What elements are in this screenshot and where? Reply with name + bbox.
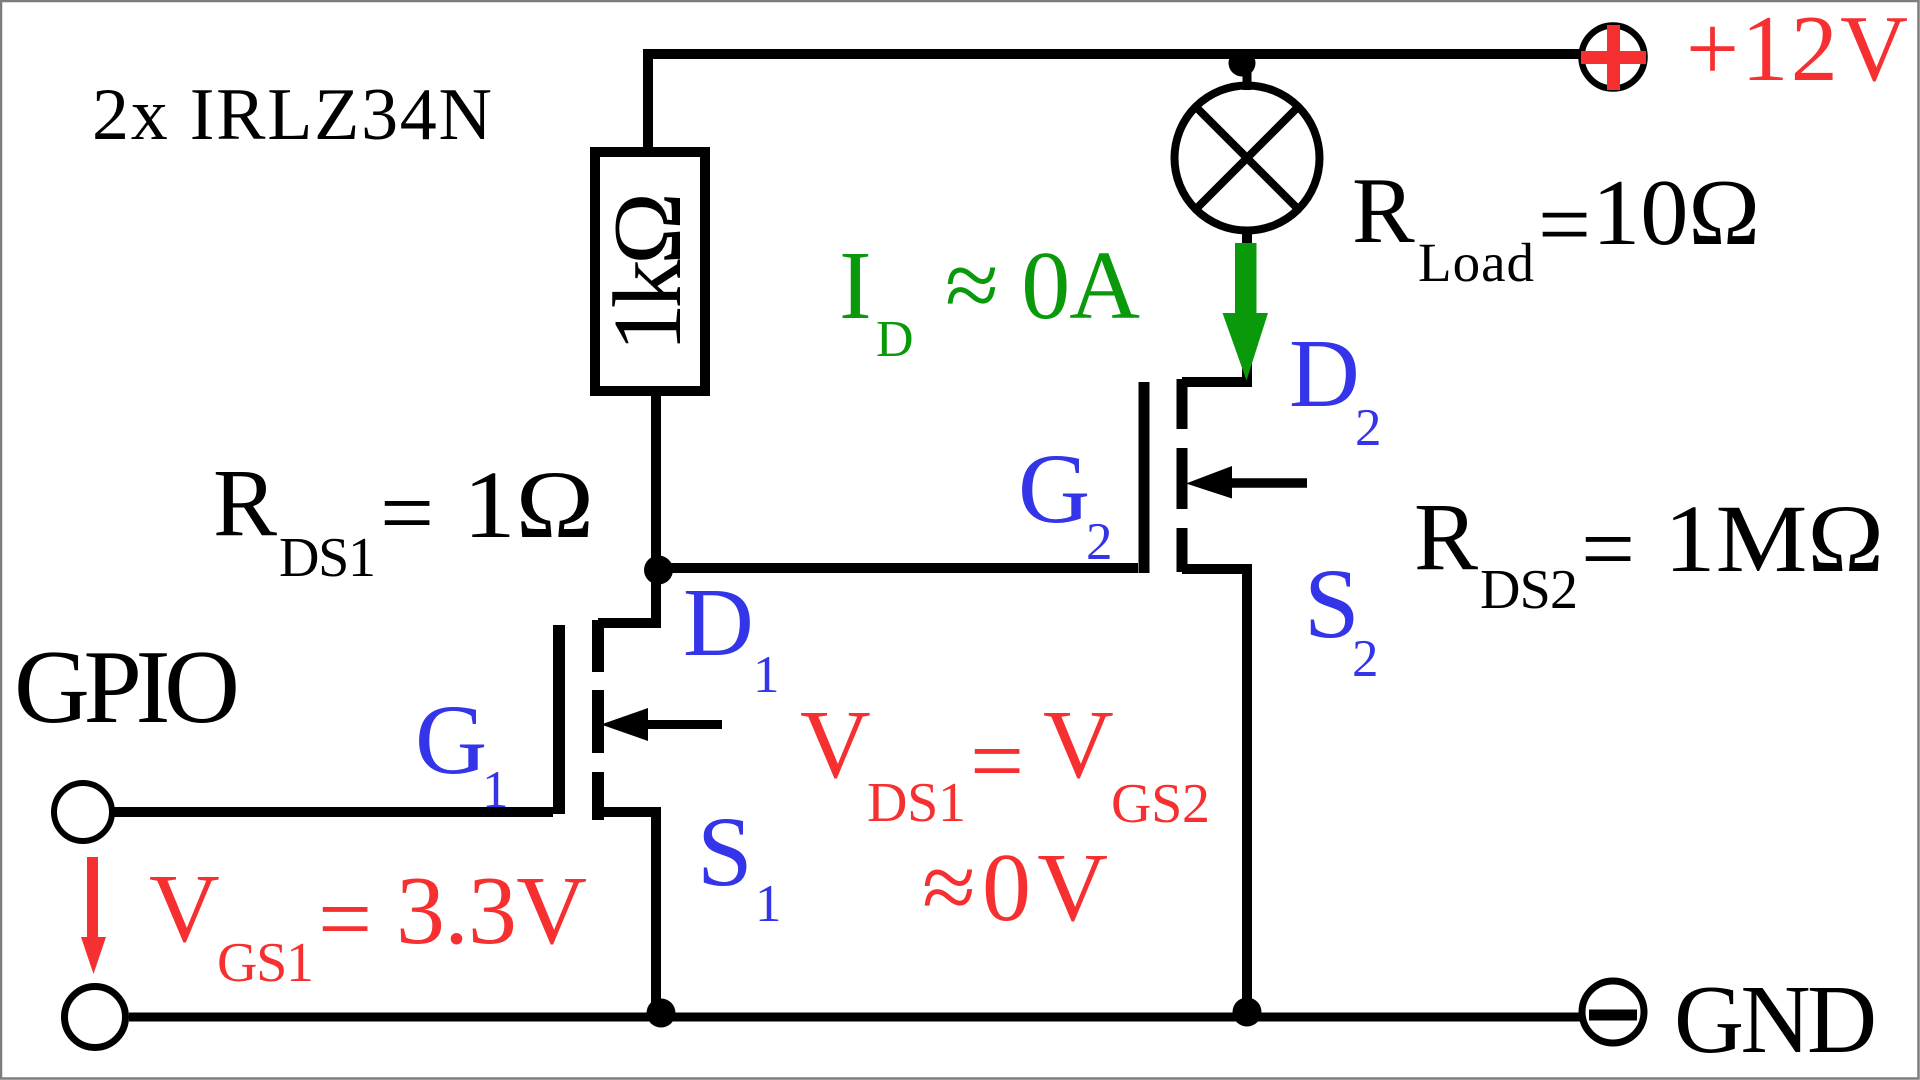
GND terminal: circle with minus	[1582, 981, 1644, 1043]
transistor Q2 (IRLZ34N, right)	[1144, 379, 1307, 1016]
svg-text:Load: Load	[1418, 232, 1534, 293]
Q1 gate bar	[553, 625, 565, 814]
wire: Q2 source lead down to ground rail	[1182, 569, 1247, 1016]
svg-text:2x IRLZ34N: 2x IRLZ34N	[92, 74, 492, 156]
+12V supply terminal: circle with red plus cross	[1581, 25, 1646, 90]
wire: Q1 source lead down to ground rail	[598, 812, 656, 1016]
svg-text:G: G	[415, 684, 487, 795]
svg-text:GS2: GS2	[1111, 773, 1210, 835]
value label RDS2= 1MΩ	[1414, 483, 1884, 621]
wire: GPIO terminal to Q1 gate	[110, 807, 553, 817]
value label RDS1= 1Ω	[213, 449, 594, 589]
svg-text:GND: GND	[1674, 966, 1877, 1073]
wire: node A to MOSFET2 gate	[651, 563, 1138, 573]
svg-text:R: R	[1352, 159, 1415, 263]
svg-text:V: V	[800, 691, 871, 799]
svg-text:1: 1	[755, 875, 782, 933]
svg-text:GS1: GS1	[217, 932, 314, 994]
svg-text:D: D	[1289, 320, 1360, 428]
GPIO terminal circle	[54, 783, 112, 841]
value label RLoad=10Ω	[1352, 159, 1760, 293]
svg-text:2: 2	[1355, 399, 1382, 457]
node: junction dot on top rail above lamp	[1229, 50, 1256, 77]
Q1 channel dashes	[592, 620, 604, 820]
svg-text:GPIO: GPIO	[14, 628, 240, 745]
svg-text:I: I	[839, 232, 872, 340]
wire: lamp top stub	[1243, 54, 1252, 90]
svg-text:V: V	[1043, 691, 1114, 799]
svg-text:1MΩ: 1MΩ	[1664, 485, 1884, 592]
Q1 body arrow	[601, 708, 648, 741]
svg-text:2: 2	[1352, 630, 1379, 688]
value label VGS1= 3.3V (red)	[149, 855, 587, 994]
svg-text:≈0V: ≈0V	[922, 834, 1108, 942]
wire: ground rail	[129, 1013, 1580, 1022]
value label VDS1 = VGS2 (red)	[800, 691, 1210, 835]
svg-text:1: 1	[482, 761, 509, 819]
lamp RLoad symbol: circle with X	[1175, 86, 1320, 231]
svg-text:=: =	[1538, 173, 1591, 277]
wire: resistor bottom to node A	[651, 391, 661, 570]
wire: Q1 drain lead to node A	[598, 570, 656, 623]
svg-text:DS1: DS1	[867, 772, 966, 834]
svg-text:D: D	[683, 569, 754, 677]
wire: lamp bottom to MOSFET2 drain lead	[1182, 228, 1247, 382]
svg-text:S: S	[697, 796, 753, 907]
svg-text:D: D	[876, 311, 914, 368]
svg-text:G: G	[1018, 433, 1090, 544]
resistor R1 body	[595, 152, 705, 391]
node: junction dot S1/ground	[647, 999, 676, 1028]
Q2 body arrow	[1186, 466, 1232, 499]
node: junction dot S2/ground	[1233, 998, 1262, 1027]
svg-text:=: =	[318, 865, 372, 972]
svg-text:R: R	[1414, 483, 1478, 590]
svg-text:1Ω: 1Ω	[463, 451, 594, 558]
svg-text:2: 2	[1086, 513, 1113, 571]
node A: junction dot (drain1 / gate2 net)	[644, 556, 673, 585]
value label ID ≈ 0A (green)	[839, 232, 1140, 368]
svg-text:1: 1	[753, 646, 780, 704]
Q2 channel dashes	[1177, 379, 1188, 572]
wire: +12V top rail from resistor top corner to +12V terminal	[648, 54, 1581, 152]
bottom-left terminal circle	[65, 987, 126, 1048]
svg-text:=: =	[970, 707, 1024, 814]
transistor Q1 (IRLZ34N, left)	[559, 570, 722, 1016]
svg-text:V: V	[149, 855, 220, 963]
svg-text:DS1: DS1	[279, 527, 376, 589]
svg-text:=: =	[380, 459, 434, 566]
svg-text:R: R	[213, 449, 277, 556]
svg-text:≈ 0A: ≈ 0A	[945, 232, 1140, 340]
green current arrow ID	[1223, 243, 1269, 381]
svg-text:3.3V: 3.3V	[396, 857, 587, 965]
red arrow VGS1	[81, 857, 106, 974]
svg-text:+12V: +12V	[1686, 0, 1908, 101]
svg-text:DS2: DS2	[1480, 559, 1578, 621]
svg-text:10Ω: 10Ω	[1592, 161, 1760, 265]
svg-text:=: =	[1581, 495, 1635, 602]
Q2 gate bar	[1139, 382, 1150, 573]
svg-text:1kΩ: 1kΩ	[594, 192, 702, 352]
